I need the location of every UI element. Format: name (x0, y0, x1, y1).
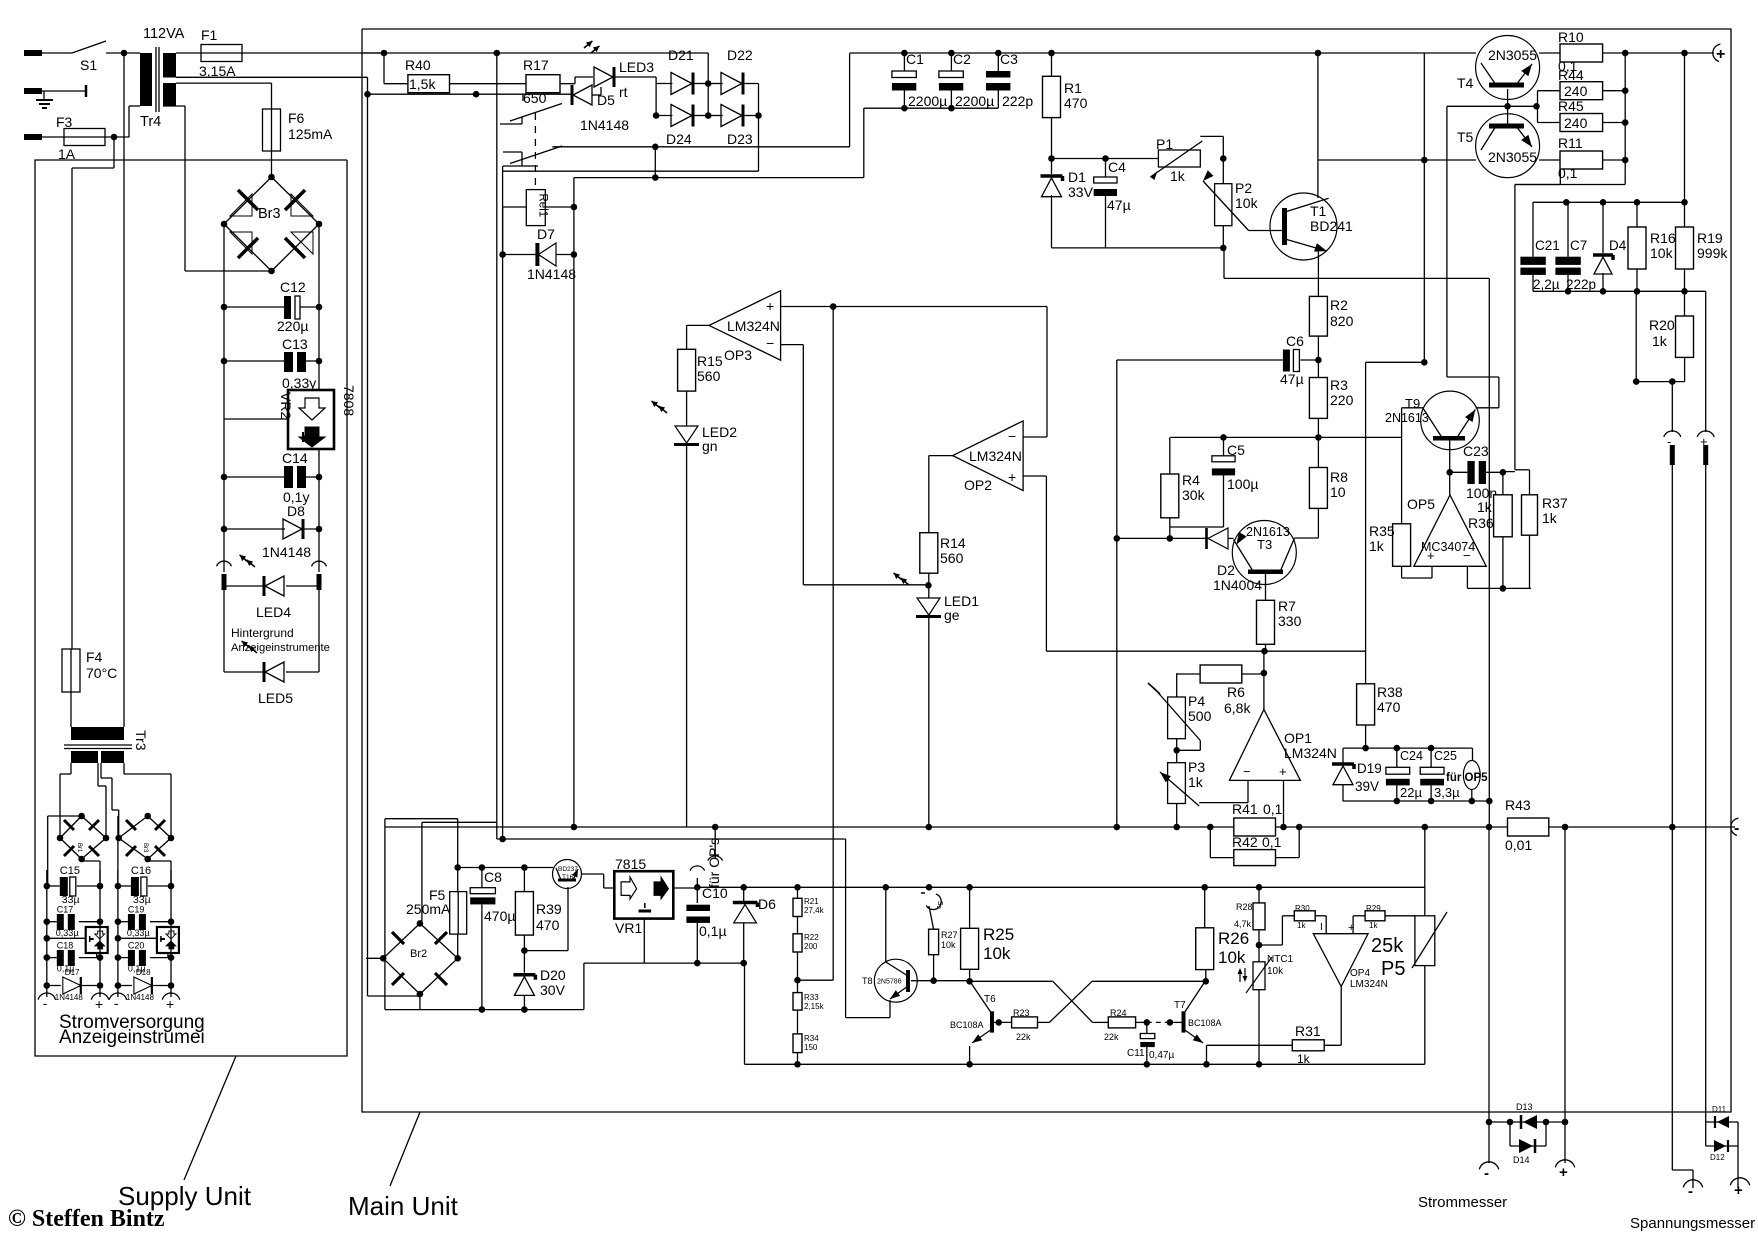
wire 7815 out (673, 887, 697, 889)
svg-text:R29: R29 (1366, 904, 1381, 913)
resistor R27 10k (929, 906, 958, 984)
svg-text:3,15A: 3,15A (199, 63, 236, 79)
svg-text:0,33y: 0,33y (282, 375, 316, 391)
output terminal minus right (1731, 818, 1740, 837)
wire LED3 to D21 col (614, 77, 656, 84)
wire x124 down to Tr3 (123, 53, 125, 727)
svg-text:1k: 1k (1188, 774, 1204, 790)
resistor R44 240 (1558, 67, 1603, 100)
potentiometer P3 1k (1157, 759, 1205, 806)
op-amp OP3 LM324N (709, 291, 781, 363)
svg-text:R28: R28 (1236, 902, 1253, 912)
resistor R26 10k (1196, 887, 1249, 969)
svg-text:3,3µ: 3,3µ (1434, 785, 1460, 800)
wire T4T5 base drive to T9 emitter (1447, 106, 1499, 408)
svg-text:+: + (1700, 434, 1708, 449)
svg-text:C20: C20 (128, 941, 145, 951)
wire R38 to D19 block (1365, 725, 1367, 748)
wire OP5 plus to R35 (1402, 566, 1432, 578)
svg-text:C3: C3 (1000, 51, 1018, 67)
resistor R33 2,15k (793, 993, 825, 1034)
svg-text:1N4148: 1N4148 (262, 544, 311, 560)
wire contact2 bracket down (502, 166, 504, 171)
wire OP1 plus input to R41 right (1280, 780, 1287, 830)
svg-text:C13: C13 (282, 336, 308, 352)
svg-text:-: - (1667, 434, 1671, 449)
LED5 on box bottom (224, 639, 319, 706)
node S1-Tr4 (121, 50, 128, 57)
wire R1 down to D1 row (1051, 118, 1053, 159)
wire OP1 output col (1263, 651, 1265, 709)
label Strommesser (1418, 1194, 1507, 1211)
svg-text:LM324N: LM324N (1350, 979, 1388, 990)
wire R8 to T3 collector (1317, 508, 1319, 538)
node R39 bottom (521, 887, 568, 973)
cap bottom bus (864, 105, 999, 112)
svg-text:470: 470 (1064, 95, 1088, 111)
switch S1 (72, 41, 106, 73)
wire D21 D24 anode col (653, 84, 660, 119)
svg-text:F6: F6 (288, 110, 305, 126)
svg-text:T5: T5 (1457, 129, 1474, 145)
svg-text:R22: R22 (804, 933, 819, 942)
wire Br2 left node (366, 958, 420, 996)
wire R20 bottom jog (1633, 291, 1685, 385)
svg-text:470: 470 (1377, 699, 1401, 715)
svg-text:OP5: OP5 (1407, 496, 1435, 512)
svg-text:200: 200 (804, 942, 818, 951)
svg-text:+: + (1008, 469, 1016, 485)
svg-text:2,15k: 2,15k (804, 1002, 825, 1011)
svg-text:D8: D8 (287, 503, 305, 519)
node R14 LED1 (925, 573, 932, 598)
label Stromversorgung Anzeigeinstrumente (59, 1012, 205, 1048)
wire rail corner into D-block (707, 53, 709, 84)
svg-text:D7: D7 (537, 226, 555, 242)
terminal strommesser minus (1479, 1162, 1498, 1182)
svg-text:470µ: 470µ (484, 908, 515, 924)
svg-text:R19: R19 (1697, 230, 1723, 246)
svg-text:R2: R2 (1330, 297, 1348, 313)
svg-text:© Steffen Bintz: © Steffen Bintz (8, 1206, 165, 1232)
wire OP2 minus (1023, 436, 1047, 438)
svg-text:1k: 1k (1369, 538, 1385, 554)
svg-text:R44: R44 (1558, 67, 1584, 83)
node R22 bottom divider (794, 952, 833, 993)
resistor R17 650 (523, 57, 560, 106)
svg-text:R39: R39 (536, 901, 562, 917)
wire P5 bottom to block gnd (1424, 966, 1426, 1065)
svg-text:LED5: LED5 (258, 690, 293, 706)
svg-text:D19: D19 (1357, 761, 1382, 776)
svg-text:10k: 10k (1650, 245, 1674, 261)
connector fuer OPs (690, 838, 722, 888)
svg-text:MC34074: MC34074 (1421, 540, 1475, 554)
svg-text:1k: 1k (1297, 921, 1306, 930)
resistor R41 0,1 on bus (1207, 801, 1283, 836)
capacitor C11 0,47u (1127, 1022, 1174, 1067)
svg-text:−: − (766, 335, 774, 351)
strommesser minus col (1486, 827, 1493, 1163)
resistor R22 200 (793, 917, 819, 953)
svg-text:0,47µ: 0,47µ (1149, 1050, 1174, 1061)
svg-text:0,01: 0,01 (1505, 837, 1532, 853)
capacitor C2 2200u (939, 50, 994, 109)
svg-text:22k: 22k (1016, 1032, 1031, 1042)
wire Tr4 tap down inner rail (364, 77, 371, 996)
svg-text:für OP's: für OP's (706, 838, 722, 888)
capacitor C23 100n (1450, 443, 1507, 501)
wire Tr4 secondary low to F6 (176, 83, 272, 109)
svg-text:R23: R23 (1013, 1008, 1030, 1018)
svg-text:C1: C1 (906, 51, 924, 67)
wire Br3 right col down (318, 224, 320, 572)
capacitor C5 100u (1170, 437, 1259, 527)
svg-text:D4: D4 (1609, 238, 1627, 253)
wire Br2 ac feed (422, 822, 497, 923)
svg-text:-: - (114, 995, 119, 1011)
wire x833 to R22 node (832, 979, 834, 981)
resistor R43 0,01 shunt (1486, 797, 1569, 853)
diode D7 1N4148 (499, 204, 577, 282)
svg-text:F1: F1 (201, 27, 218, 43)
fuse F6 125mA (263, 109, 334, 151)
svg-text:Rel1: Rel1 (537, 194, 549, 218)
row D1 C4 P1 (1048, 155, 1226, 162)
wire R40 to R17 (450, 83, 527, 85)
terminal spannungsmesser minus (1683, 1180, 1702, 1200)
zener D20 30V (513, 967, 565, 1010)
bus2 return y839 (497, 838, 846, 840)
capacitor C13 0,33y (221, 336, 323, 391)
resistor R16 10k (1628, 202, 1676, 291)
svg-text:D5: D5 (597, 92, 615, 108)
row y202 C21 C7 D4 cluster top (1533, 199, 1688, 206)
mains terminal L (24, 50, 72, 56)
svg-text:D14: D14 (1513, 1155, 1530, 1165)
svg-text:Strommesser: Strommesser (1418, 1194, 1507, 1211)
svg-text:NTC1: NTC1 (1267, 954, 1294, 965)
wire T3 collector to R8 (1295, 537, 1319, 539)
LED4 (224, 553, 319, 620)
transistor T8 2N5786 (862, 959, 917, 1002)
svg-text:C23: C23 (1463, 443, 1489, 459)
svg-text:0,1: 0,1 (1262, 834, 1282, 850)
wire R38 col (1365, 436, 1367, 438)
svg-text:P4: P4 (1188, 693, 1205, 709)
resistor R24 22k (1104, 1008, 1136, 1042)
resistor R40 1,5k (405, 57, 450, 93)
svg-text:650: 650 (523, 90, 547, 106)
node D24 cathode (693, 84, 712, 119)
svg-text:D11: D11 (1712, 1105, 1727, 1114)
svg-text:2,2µ: 2,2µ (1533, 277, 1560, 292)
svg-text:10k: 10k (983, 944, 1011, 963)
capacitor C8 470u (470, 868, 515, 1010)
svg-text:330: 330 (1278, 613, 1302, 629)
capacitor C10 0,1u (686, 885, 727, 963)
svg-text:1N4148: 1N4148 (55, 993, 84, 1002)
svg-text:T6: T6 (984, 994, 996, 1005)
resistor R36 1k (1468, 472, 1512, 537)
resistor R4 30k (1161, 437, 1206, 538)
block gnd rail y1064 (745, 963, 1425, 1068)
resistor R6 6,8k (1200, 665, 1251, 716)
svg-text:P3: P3 (1188, 759, 1205, 775)
capacitor C25 3,3u (1420, 748, 1460, 801)
svg-text:47µ: 47µ (1280, 371, 1304, 387)
wire x496.8 x502.6 down (497, 124, 506, 842)
svg-text:-: - (43, 995, 48, 1011)
regulator VR2 7808 (224, 385, 357, 449)
resistor R31 1k (1207, 987, 1342, 1067)
svg-text:7808: 7808 (341, 385, 357, 416)
svg-text:D2: D2 (1217, 562, 1235, 578)
resistor R34 150 (793, 1034, 819, 1064)
rail y53 right segment (850, 52, 1476, 54)
svg-text:BD241: BD241 (1310, 218, 1353, 234)
filter block A (C15 C17 C18 VR) (38, 865, 109, 1012)
flipflop cross row lower (1038, 981, 1206, 1022)
svg-text:T9: T9 (1405, 396, 1420, 411)
dashed relay actuation line (534, 113, 536, 190)
svg-text:D22: D22 (727, 47, 753, 63)
svg-text:C21: C21 (1535, 238, 1560, 253)
wire F4 to Tr3 (70, 692, 72, 727)
svg-text:−: − (1243, 764, 1251, 779)
svg-text:100µ: 100µ (1227, 476, 1258, 492)
vertical x1684 from rail (1684, 53, 1686, 202)
svg-text:T16: T16 (562, 874, 574, 881)
block fuer OP5 bottom wire (1343, 790, 1493, 805)
wire y94 to relay contact and D5 (368, 91, 573, 101)
svg-text:OP1: OP1 (1284, 730, 1312, 746)
spannungsmesser diode D11 (1671, 827, 1673, 1170)
svg-text:2N3055: 2N3055 (1488, 149, 1537, 165)
svg-text:OP4: OP4 (1350, 968, 1370, 979)
svg-text:39V: 39V (1355, 779, 1379, 794)
svg-text:C18: C18 (57, 941, 74, 951)
svg-text:Tr3: Tr3 (133, 730, 149, 751)
fuse F3 1A (56, 114, 105, 162)
svg-text:R36: R36 (1468, 515, 1494, 531)
svg-text:1k: 1k (1477, 499, 1493, 515)
resistor R45 240 (1558, 98, 1603, 132)
svg-text:C19: C19 (128, 905, 145, 915)
capacitor C6 47u (1280, 333, 1322, 387)
svg-text:240: 240 (1564, 115, 1588, 131)
resistor R25 10k (961, 887, 1015, 984)
diode D23 (708, 105, 753, 148)
svg-text:220: 220 (1330, 392, 1354, 408)
resistor R38 470 (1357, 684, 1403, 725)
svg-text:D21: D21 (668, 47, 694, 63)
svg-text:F4: F4 (86, 649, 103, 665)
svg-text:6,8k: 6,8k (1224, 700, 1251, 716)
wire Tr3 sec to bridges (60, 763, 171, 838)
svg-text:C24: C24 (1400, 749, 1423, 763)
wire P2 bottom to T1 emitter row (1224, 248, 1318, 279)
svg-text:LM324N: LM324N (1284, 745, 1337, 761)
svg-text:250mA: 250mA (406, 901, 451, 917)
resistor R10 0,1 (1558, 29, 1603, 74)
svg-text:P5: P5 (1381, 958, 1405, 980)
wire top row to C8 R39 T16 (458, 864, 554, 871)
svg-text:70°C: 70°C (86, 665, 117, 681)
wire P3 bottom to bus1 (1173, 804, 1180, 831)
svg-text:LM324N: LM324N (969, 448, 1022, 464)
transistor T16 BD237 (553, 860, 582, 889)
svg-text:D18: D18 (136, 968, 151, 977)
svg-text:C5: C5 (1227, 442, 1245, 458)
wire x573.9 down to bus1 (573, 178, 575, 827)
resistor R39 470 (515, 868, 561, 936)
svg-text:30k: 30k (1182, 487, 1206, 503)
svg-text:10k: 10k (1235, 195, 1259, 211)
transistor T7 BC108A (1174, 970, 1222, 1068)
svg-text:D23: D23 (727, 131, 753, 147)
svg-text:2200µ: 2200µ (908, 93, 947, 109)
svg-text:gn: gn (702, 438, 718, 454)
svg-text:C8: C8 (484, 869, 502, 885)
supply unit box (35, 160, 347, 1056)
transistor T5 2N3055 (1457, 114, 1540, 178)
svg-text:10k: 10k (1267, 966, 1284, 977)
svg-text:22µ: 22µ (1400, 785, 1422, 800)
capacitor C12 220u (221, 279, 323, 334)
relay Rel1 coil (526, 190, 548, 226)
wire LED4 cols down (224, 590, 319, 672)
wire T16 to 7815 (581, 874, 614, 888)
wire S1 to Tr4 (106, 52, 140, 54)
svg-text:7815: 7815 (615, 856, 646, 872)
svg-text:-: - (1734, 820, 1739, 837)
svg-text:T8: T8 (862, 976, 873, 986)
flipflop cross row upper (970, 981, 1109, 1022)
svg-text:R8: R8 (1330, 469, 1348, 485)
node D21 cathode (693, 80, 712, 87)
svg-text:560: 560 (940, 550, 964, 566)
wire T1 collector up to rail (1315, 50, 1322, 198)
svg-text:R27: R27 (941, 930, 958, 940)
wire bridges to cap rows (48, 816, 171, 886)
switch s2 (921, 893, 946, 910)
wire to R40 (384, 53, 408, 84)
svg-text:4,7k: 4,7k (1234, 919, 1252, 929)
svg-text:F3: F3 (56, 114, 73, 130)
transistor T4 2N3055 (1457, 36, 1540, 100)
svg-text:T4: T4 (1457, 75, 1474, 91)
LED2 gn (650, 391, 738, 454)
svg-text:1N4004: 1N4004 (1213, 577, 1262, 593)
op-amp OP5 MC34074 (1407, 495, 1486, 566)
svg-text:LM324N: LM324N (727, 318, 780, 334)
connector stub below bus1 (708, 827, 723, 861)
rail 15V y887.3 (694, 884, 1425, 891)
svg-text:R14: R14 (940, 535, 966, 551)
resistor R30 1k (1282, 904, 1326, 930)
svg-text:10k: 10k (1218, 948, 1246, 967)
wire plus sense col x1705 (1685, 291, 1706, 432)
zener D19 39V (1332, 748, 1382, 801)
node F3 (105, 134, 129, 141)
svg-text:R43: R43 (1505, 797, 1531, 813)
diode D5 1N4148 (572, 85, 629, 133)
svg-text:D6: D6 (758, 896, 776, 912)
svg-text:1N4148: 1N4148 (126, 993, 155, 1002)
wire OP3 minus feedback (781, 345, 929, 585)
bus1 ground rail y827 (385, 824, 1735, 831)
svg-text:R45: R45 (1558, 98, 1584, 114)
svg-text:P1: P1 (1156, 136, 1173, 152)
ellipse fuer OP5 (1446, 748, 1488, 789)
svg-text:1k: 1k (1170, 168, 1186, 184)
node P4 P3 (1173, 739, 1180, 763)
svg-text:C2: C2 (953, 51, 971, 67)
svg-text:820: 820 (1330, 313, 1354, 329)
svg-text:für OP5: für OP5 (1446, 772, 1488, 784)
svg-text:2200µ: 2200µ (955, 93, 994, 109)
wire T8 emitter loop (846, 839, 890, 1018)
svg-text:S1: S1 (80, 57, 97, 73)
svg-text:+: + (95, 996, 103, 1012)
svg-text:C7: C7 (1570, 238, 1587, 253)
svg-text:0,33µ: 0,33µ (56, 928, 79, 938)
transistor T3 2N1613 (1232, 521, 1296, 585)
potentiometer P2 10k (1200, 159, 1258, 231)
svg-text:C15: C15 (60, 865, 80, 877)
wire x1424 T5 col to R38 col (1366, 53, 1428, 684)
transistor T1 BD241 (1249, 193, 1353, 260)
svg-text:D17: D17 (65, 968, 80, 977)
fuse F1 3,15A (176, 27, 242, 79)
callout Main Unit (348, 1112, 459, 1221)
svg-text:0,1µ: 0,1µ (699, 923, 727, 939)
svg-text:R15: R15 (697, 353, 723, 369)
spannungsmesser cols (1706, 1105, 1738, 1162)
op-amp OP1 LM324N (1229, 710, 1337, 781)
svg-text:I: I (1320, 922, 1323, 933)
LED3 rt (582, 39, 654, 100)
svg-text:+: + (166, 996, 174, 1012)
svg-text:2N3055: 2N3055 (1488, 47, 1537, 63)
output terminal plus top (1713, 44, 1726, 63)
wire F1 to main unit rail (242, 52, 384, 54)
fuse F5 250mA (406, 864, 467, 958)
svg-text:R35: R35 (1369, 523, 1395, 539)
rail y53 left segment (362, 52, 708, 54)
svg-text:LED4: LED4 (256, 604, 291, 620)
svg-text:R16: R16 (1650, 230, 1676, 246)
wire x496 contact feed down (496, 53, 498, 124)
svg-text:560: 560 (697, 368, 721, 384)
svg-text:D24: D24 (666, 131, 692, 147)
wire R17 to LED3 (560, 77, 593, 84)
main unit box (362, 29, 1731, 1112)
svg-text:R21: R21 (804, 897, 819, 906)
row D2 y538.4 (1114, 535, 1209, 542)
node D23 cathode (743, 112, 762, 119)
svg-text:Main Unit: Main Unit (348, 1191, 459, 1221)
svg-text:Br1: Br1 (76, 843, 82, 853)
svg-text:C4: C4 (1108, 159, 1126, 175)
potentiometer P1 1k (1150, 136, 1223, 184)
resistor R28 4,7k (1234, 887, 1265, 962)
resistor R21 27,4k (793, 887, 825, 916)
svg-text:BC108A: BC108A (950, 1020, 984, 1030)
wire y177.6 C-bus return (574, 108, 864, 181)
svg-text:R24: R24 (1110, 1008, 1127, 1018)
